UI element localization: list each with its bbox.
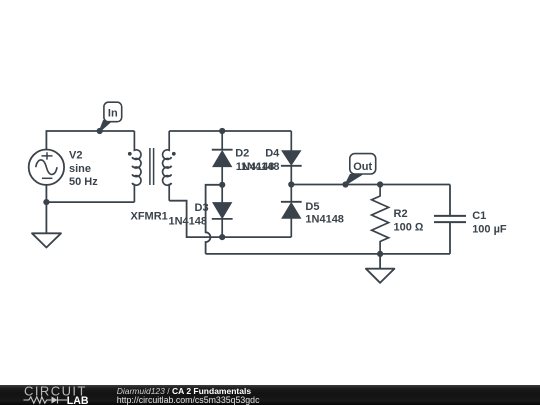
resistor R2: [372, 185, 389, 254]
node Out flag: [345, 154, 375, 185]
voltage source V2: [29, 150, 64, 185]
capacitor C1: [434, 216, 466, 222]
wire secondary top rail: [169, 130, 291, 132]
wire out rail: [291, 184, 450, 186]
svg-text:100 Ω: 100 Ω: [394, 221, 424, 233]
wire bottom rail: [206, 253, 450, 255]
node In junction: [97, 128, 103, 134]
node secondary top / D2 junction: [219, 128, 225, 134]
svg-text:100 µF: 100 µF: [472, 223, 507, 235]
svg-text:Out: Out: [353, 161, 372, 173]
svg-text:sine: sine: [69, 163, 91, 175]
wire V2 bottom stem: [45, 185, 47, 202]
transformer phasing dot primary: [128, 152, 132, 156]
ground (left): [32, 233, 61, 247]
svg-text:D2: D2: [235, 148, 249, 160]
node M D2/D3 junction: [219, 182, 225, 188]
node In flag: [99, 102, 121, 131]
svg-text:LAB: LAB: [67, 395, 89, 405]
svg-text:1N4148: 1N4148: [305, 214, 344, 226]
node R2 bottom junction: [377, 251, 383, 257]
svg-text:D5: D5: [305, 201, 319, 213]
wire node M left jog with hop over wire: [206, 185, 223, 254]
node Out junction: [342, 181, 348, 187]
svg-text:1N4148: 1N4148: [241, 161, 280, 173]
transformer XFMR1 secondary coil: [163, 131, 172, 201]
label D3 1N4148: [169, 202, 209, 227]
label R2 100 Ohm: [394, 208, 424, 233]
svg-text:V2: V2: [69, 150, 82, 162]
label V2 sine 50 Hz: [69, 150, 98, 189]
node D3 bottom junction: [219, 234, 225, 240]
junction node dots: [43, 128, 383, 257]
svg-text:XFMR1: XFMR1: [131, 210, 168, 222]
label D4 1N4148: [241, 148, 280, 174]
transformer XFMR1 primary coil: [132, 131, 141, 202]
transformer phasing dot secondary: [172, 152, 176, 156]
node R2 top junction: [377, 181, 383, 187]
label D2 1N4148: [235, 148, 274, 174]
wire ground stem right: [379, 254, 381, 269]
node V2 bottom junction: [43, 199, 49, 205]
diode D5: [281, 185, 302, 238]
svg-text:D3: D3: [195, 202, 209, 214]
wire secondary bottom staircase: [169, 201, 222, 237]
wire In node to transformer primary top: [100, 130, 135, 132]
wire C1 top branch: [449, 185, 451, 216]
wire C1 bottom branch: [449, 222, 451, 254]
diode D4: [281, 131, 302, 185]
node N D4/D5 junction: [288, 181, 294, 187]
svg-text:C1: C1: [472, 210, 486, 222]
wire D3 bottom to D5 bottom: [222, 236, 291, 238]
transformer core: [150, 148, 154, 185]
label C1 100 uF: [472, 210, 507, 235]
wire V2 top to In node: [46, 131, 99, 149]
diode D2: [212, 131, 233, 185]
svg-text:50 Hz: 50 Hz: [69, 176, 98, 188]
svg-text:R2: R2: [394, 208, 408, 220]
diode D3: [212, 185, 233, 237]
wire primary bottom to V2 bottom: [46, 201, 134, 203]
ground (right): [366, 269, 395, 283]
svg-text:In: In: [108, 107, 118, 119]
svg-text:1N4148: 1N4148: [169, 216, 208, 228]
wire ground stem left: [45, 202, 47, 233]
svg-text:D4: D4: [265, 148, 280, 160]
label D5 1N4148: [305, 201, 344, 226]
